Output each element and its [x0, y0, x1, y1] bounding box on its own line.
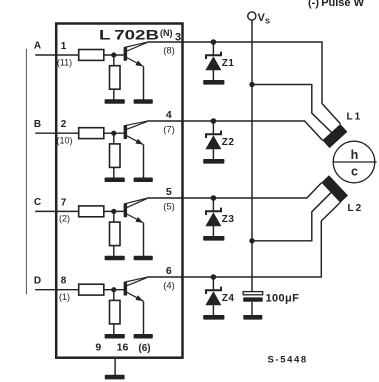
- svg-text:7: 7: [61, 197, 67, 208]
- zener diode Z1: [205, 42, 221, 80]
- transistor Q4 emitter: [127, 292, 144, 334]
- pin (2) label: [59, 214, 70, 224]
- node Vs tap A: [249, 82, 254, 87]
- svg-text:8: 8: [61, 276, 67, 287]
- pin 8 label: [61, 276, 67, 287]
- label S-5448: [268, 355, 308, 366]
- wire output pin 3: [147, 41, 183, 43]
- transistor Q4 collector: [124, 277, 147, 286]
- wire output pin 5: [147, 197, 183, 199]
- svg-text:c: c: [351, 165, 358, 179]
- wire node C down: [113, 211, 115, 222]
- transistor Q3 collector: [124, 198, 147, 207]
- ground (channel A emitter): [134, 99, 153, 104]
- transistor Q1 emitter: [127, 58, 144, 100]
- label h: [351, 148, 359, 162]
- transistor Q3 emitter: [127, 214, 144, 256]
- svg-text:S: S: [265, 16, 270, 25]
- wire node B down: [113, 133, 115, 144]
- wire A to base: [104, 54, 124, 56]
- svg-text:(5): (5): [163, 202, 175, 213]
- node junction C: [111, 209, 116, 214]
- svg-text:L 702B: L 702B: [99, 27, 159, 43]
- ground (channel B shunt): [105, 178, 125, 183]
- wire shunt A to ground: [113, 89, 115, 99]
- node junction B: [111, 131, 116, 136]
- pin 2 label: [61, 119, 67, 130]
- wire shunt C to ground: [113, 246, 115, 256]
- transistor Q1 collector: [124, 42, 147, 51]
- pin (8) label: [163, 46, 175, 57]
- label Z4: [222, 293, 235, 304]
- wire pin 3 to L1 top: [183, 42, 341, 124]
- transistor Q3 base bar: [124, 204, 128, 218]
- svg-text:(N): (N): [160, 28, 173, 38]
- coil L2: [321, 175, 348, 202]
- wire shunt B to ground: [113, 167, 115, 177]
- ground (Z1): [203, 80, 224, 85]
- pin 4 label: [166, 109, 172, 121]
- svg-text:(6): (6): [138, 343, 150, 354]
- svg-text:4: 4: [166, 109, 172, 121]
- resistor R1 (base): [79, 50, 104, 61]
- label c: [351, 165, 358, 179]
- svg-text:6: 6: [166, 265, 172, 277]
- svg-text:(4): (4): [163, 281, 175, 292]
- wire pin 6 to L2 bottom: [183, 203, 341, 278]
- pin (11) label: [57, 57, 72, 67]
- pin (7) label: [163, 125, 175, 136]
- pin (1) label: [59, 292, 70, 302]
- svg-text:h: h: [351, 148, 359, 162]
- label L2: [348, 203, 362, 214]
- ground (IC substrate): [105, 375, 125, 380]
- node junction A: [111, 52, 116, 57]
- svg-text:Z3: Z3: [222, 214, 235, 225]
- node B input label: [34, 119, 41, 130]
- svg-text:3: 3: [175, 31, 181, 43]
- pin 9 label: [95, 342, 101, 354]
- input bus bracket: [25, 49, 27, 295]
- label L1: [347, 112, 361, 123]
- wire B to base: [104, 132, 124, 134]
- node Z3 junction: [211, 195, 217, 201]
- svg-text:9: 9: [95, 342, 101, 354]
- ground (Z4): [203, 315, 224, 320]
- pin (5) label: [163, 202, 175, 213]
- wire output pin 4: [147, 120, 183, 122]
- label 100uF: [266, 292, 300, 304]
- pin 3 label: [175, 31, 181, 43]
- ground (Z2): [203, 159, 224, 164]
- label Z3: [222, 214, 235, 225]
- svg-text:Z1: Z1: [222, 58, 235, 69]
- svg-text:(7): (7): [163, 125, 175, 136]
- svg-text:100μF: 100μF: [266, 292, 300, 304]
- wire output pin 6: [147, 276, 183, 278]
- transistor Q2 collector: [124, 121, 147, 129]
- label Vs: [258, 12, 271, 25]
- svg-text:5: 5: [166, 186, 172, 198]
- supply terminal Vs: [248, 12, 256, 20]
- label L702B(N): [99, 27, 173, 43]
- pin (4) label: [163, 281, 175, 292]
- node C input label: [34, 197, 41, 208]
- svg-text:Z4: Z4: [222, 293, 235, 304]
- wire input B: [35, 132, 78, 134]
- node junction D: [111, 287, 116, 292]
- resistor R4 (shunt): [110, 144, 121, 168]
- svg-text:Z2: Z2: [222, 137, 235, 148]
- svg-text:16: 16: [117, 342, 129, 354]
- svg-text:(11): (11): [57, 57, 72, 67]
- ground (channel C shunt): [105, 256, 125, 261]
- label Z1: [222, 58, 235, 69]
- svg-text:S-5448: S-5448: [268, 355, 308, 366]
- wire C to base: [104, 210, 124, 212]
- node Vs tap B: [249, 238, 254, 243]
- resistor R6 (shunt): [110, 222, 121, 246]
- transistor Q2 base bar: [124, 125, 128, 139]
- svg-text:B: B: [34, 119, 41, 130]
- coil L1: [322, 124, 347, 148]
- svg-text:C: C: [34, 197, 41, 208]
- wire D to base: [104, 289, 124, 291]
- wire input A: [35, 54, 78, 56]
- zener diode Z3: [205, 198, 221, 236]
- resistor R3 (base): [79, 128, 104, 139]
- ground (channel D shunt): [105, 334, 125, 339]
- transistor Q2 emitter: [127, 136, 144, 178]
- wire input C: [35, 210, 78, 212]
- pin 6 label: [166, 265, 172, 277]
- svg-text:L 2: L 2: [348, 203, 362, 214]
- capacitor C1 100uF: [243, 292, 263, 316]
- wire IC ground: [114, 358, 116, 375]
- pin 7 label: [61, 197, 67, 208]
- svg-text:(8): (8): [163, 46, 175, 57]
- ground (Z3): [203, 236, 224, 241]
- pin 5 label: [166, 186, 172, 198]
- resistor R7 (base): [79, 284, 104, 295]
- ground (channel B emitter): [134, 178, 153, 183]
- wire Vs tap to L1 center: [252, 85, 332, 133]
- IC U1 L702B driver outline: [56, 24, 182, 358]
- ground (C1): [243, 315, 262, 320]
- wire pin 4 to L1 bottom: [183, 121, 323, 140]
- svg-text:A: A: [34, 41, 41, 52]
- pin 1 label: [61, 41, 67, 52]
- svg-text:(1): (1): [59, 292, 70, 302]
- pin (10) label: [56, 136, 72, 146]
- ground (channel C emitter): [134, 256, 153, 261]
- node Z1 junction: [211, 39, 217, 45]
- pin 16 label: [117, 342, 129, 354]
- transistor Q4 base bar: [124, 282, 128, 296]
- transistor Q1 base bar: [124, 47, 128, 61]
- wire shunt D to ground: [113, 324, 115, 334]
- motor head drum: [332, 141, 376, 183]
- pin (6) label: [138, 343, 150, 354]
- resistor R5 (base): [79, 206, 104, 217]
- svg-text:L 1: L 1: [347, 112, 361, 123]
- wire Vs rail: [251, 20, 253, 291]
- node D input label: [34, 275, 41, 286]
- wire node A down: [113, 55, 115, 66]
- wire node D down: [113, 290, 115, 301]
- label Z2: [222, 137, 235, 148]
- svg-text:1: 1: [61, 41, 67, 52]
- ground (channel D emitter): [134, 334, 153, 339]
- caption (-) Pulse W (clipped): [308, 0, 365, 9]
- node Z4 junction: [211, 274, 217, 280]
- resistor R2 (shunt): [110, 66, 121, 90]
- svg-text:(10): (10): [56, 136, 72, 146]
- svg-text:D: D: [34, 275, 41, 286]
- zener diode Z2: [205, 121, 221, 159]
- wire Vs tap to L2 center: [252, 193, 331, 241]
- wire input D: [35, 289, 78, 291]
- ground (channel A shunt): [105, 99, 125, 104]
- svg-text:(2): (2): [59, 214, 70, 224]
- node A input label: [34, 41, 41, 52]
- wire pin 5 to L2 top: [183, 183, 322, 198]
- node Z2 junction: [211, 118, 217, 124]
- zener diode Z4: [205, 277, 221, 315]
- svg-text:(-) Pulse W: (-) Pulse W: [308, 0, 365, 9]
- resistor R8 (shunt): [110, 300, 121, 324]
- svg-text:2: 2: [61, 119, 67, 130]
